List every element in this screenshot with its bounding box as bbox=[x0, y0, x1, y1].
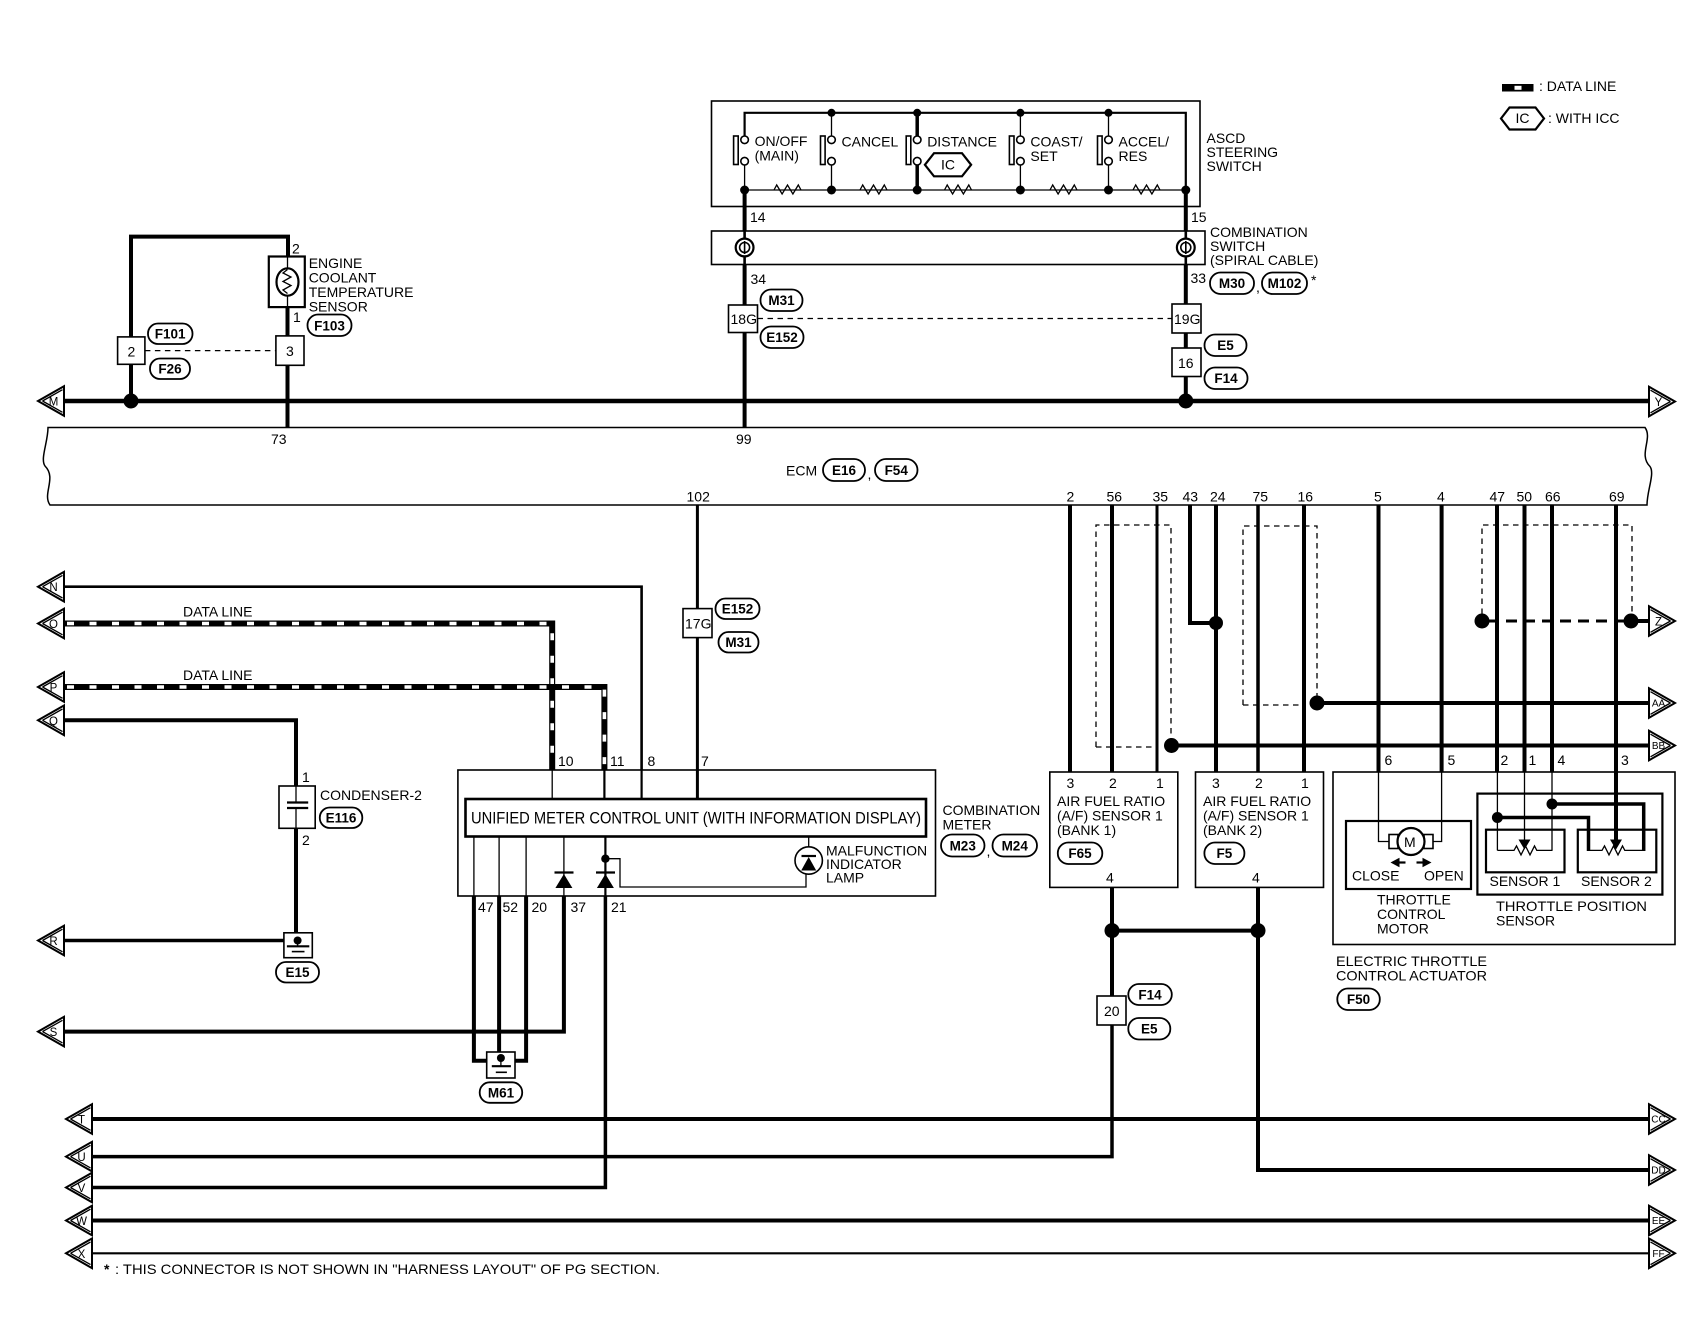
combination meter box bbox=[458, 770, 936, 896]
wire pin52 inside bbox=[498, 837, 500, 897]
connector box 3 bbox=[276, 336, 304, 365]
pin 14 wire bbox=[743, 190, 747, 231]
svg-text:102: 102 bbox=[687, 489, 711, 505]
svg-text:8: 8 bbox=[648, 753, 656, 769]
wire meter pin 20 to ground bbox=[515, 896, 526, 1061]
connector E152 label bbox=[761, 327, 804, 349]
svg-text:1: 1 bbox=[302, 769, 310, 785]
svg-text:E5: E5 bbox=[1217, 338, 1234, 353]
switch DISTANCE SW3 (thick, with IC) bbox=[906, 113, 997, 190]
wire bus M to Y bbox=[64, 399, 1649, 404]
svg-text:11: 11 bbox=[610, 753, 625, 769]
svg-text:F54: F54 bbox=[885, 463, 909, 478]
page arrow CC bbox=[1649, 1104, 1675, 1134]
COMBINATION SWITCH (SPIRAL CABLE) bbox=[712, 224, 1319, 305]
svg-text:,: , bbox=[987, 843, 991, 859]
electric throttle control actuator box bbox=[1333, 772, 1675, 945]
svg-text:DATA LINE: DATA LINE bbox=[183, 604, 253, 620]
svg-text:CONDENSER-2: CONDENSER-2 bbox=[320, 787, 422, 803]
wire pin10 into unified box bbox=[551, 770, 553, 799]
page arrow M bbox=[38, 386, 64, 416]
page arrow AA bbox=[1649, 688, 1675, 718]
svg-text:,: , bbox=[1256, 279, 1260, 295]
svg-text:2: 2 bbox=[1109, 775, 1117, 791]
svg-text:33: 33 bbox=[1191, 270, 1207, 286]
M61 ground + S bbox=[38, 896, 605, 1202]
svg-text:2: 2 bbox=[1255, 775, 1263, 791]
page arrow X bbox=[66, 1239, 92, 1269]
svg-text:W: W bbox=[76, 1216, 87, 1228]
junction dot pin2 bbox=[1492, 812, 1503, 823]
wire ECM pin 75 to AF2 pin 2 bbox=[1256, 505, 1260, 772]
wire ETCA pin6 to motor bbox=[1379, 772, 1390, 842]
thick dashed Z link bbox=[1488, 620, 1625, 623]
wire ECM pin 66 to TPS pin 4 bbox=[1550, 505, 1554, 772]
page arrow FF bbox=[1649, 1239, 1675, 1269]
page arrow V bbox=[66, 1173, 92, 1203]
svg-text:99: 99 bbox=[736, 431, 752, 447]
wire box2 to bus junction bbox=[129, 364, 133, 401]
junction dot Z right bbox=[1624, 614, 1639, 629]
throttle control motor M bbox=[1389, 828, 1433, 867]
wire ECM pin 102 down bbox=[696, 505, 699, 609]
svg-text:43: 43 bbox=[1183, 489, 1199, 505]
junction dot on pin21 wire bbox=[601, 855, 609, 863]
page arrow Z bbox=[1649, 606, 1675, 636]
svg-text:4: 4 bbox=[1106, 870, 1114, 886]
spiral cable box bbox=[712, 231, 1206, 265]
svg-text:F14: F14 bbox=[1214, 371, 1238, 386]
pin 15 wire bbox=[1184, 190, 1188, 231]
svg-text:O: O bbox=[49, 619, 58, 631]
wire box3 to ECM pin 73 bbox=[286, 365, 290, 427]
wire loop from bus to sensor pin 2 bbox=[131, 237, 288, 365]
svg-text:1: 1 bbox=[293, 309, 301, 325]
svg-text:19G: 19G bbox=[1174, 311, 1200, 327]
wire pin2 to sensor2 left bbox=[1497, 818, 1588, 852]
left spiral contact symbol bbox=[736, 239, 754, 257]
wire meter pin 37 to S bbox=[64, 896, 564, 1032]
svg-text:E152: E152 bbox=[766, 330, 798, 345]
page arrow P bbox=[38, 672, 64, 702]
wire ETCA pin5 to motor bbox=[1433, 772, 1442, 842]
connector M30 bbox=[1210, 273, 1254, 295]
svg-text:4: 4 bbox=[1437, 489, 1445, 505]
page arrow Y bbox=[1649, 387, 1675, 417]
svg-text:,: , bbox=[868, 466, 872, 482]
junction dots bottom rail bbox=[740, 186, 749, 195]
IC hexagon bbox=[925, 153, 971, 176]
svg-text:Q: Q bbox=[49, 716, 58, 728]
svg-text:F103: F103 bbox=[314, 319, 345, 334]
wire TPS pin3 to wiper2 bbox=[1614, 772, 1618, 840]
svg-text:: THIS CONNECTOR IS NOT SHOWN: : THIS CONNECTOR IS NOT SHOWN IN "HARNES… bbox=[115, 1261, 660, 1277]
svg-text:S: S bbox=[50, 1027, 58, 1039]
svg-text:Y: Y bbox=[1655, 397, 1663, 409]
svg-text:1: 1 bbox=[1529, 752, 1537, 768]
wire ECM pin 4 to ETCA pin 5 bbox=[1440, 505, 1444, 772]
svg-text:6: 6 bbox=[1385, 752, 1393, 768]
svg-text:5: 5 bbox=[1374, 489, 1382, 505]
sensor1 wiper arrow bbox=[1519, 840, 1531, 850]
svg-text:4: 4 bbox=[1252, 870, 1260, 886]
connector E5 label bbox=[1205, 335, 1247, 357]
bottom lines bbox=[66, 1104, 1675, 1277]
svg-text:: WITH ICC: : WITH ICC bbox=[1548, 110, 1620, 126]
top feed wire bbox=[745, 113, 1186, 190]
svg-text:20: 20 bbox=[1104, 1003, 1120, 1019]
junction dot AF2 pin4 bbox=[1251, 923, 1266, 938]
unified meter control unit box bbox=[466, 799, 927, 837]
wire below 18G to ECM pin 99 bbox=[743, 333, 747, 428]
dashed connector link 2-3 bbox=[145, 350, 276, 352]
svg-text:2: 2 bbox=[128, 344, 136, 360]
bottom resistor rail wire bbox=[745, 189, 1186, 191]
wire ECM pin 2 to AF1 pin 3 bbox=[1068, 505, 1072, 772]
pin 33 wire bbox=[1184, 265, 1188, 305]
combination meter bbox=[458, 753, 1040, 915]
svg-text:M31: M31 bbox=[725, 635, 752, 650]
svg-text:F101: F101 bbox=[155, 327, 186, 342]
bus junction dot bbox=[124, 394, 139, 409]
svg-text:15: 15 bbox=[1191, 209, 1207, 225]
svg-text:(SPIRAL CABLE): (SPIRAL CABLE) bbox=[1210, 252, 1318, 268]
malfunction indicator lamp bbox=[795, 837, 927, 886]
svg-text:17G: 17G bbox=[685, 616, 711, 632]
svg-text:3: 3 bbox=[1067, 775, 1075, 791]
svg-text:14: 14 bbox=[750, 209, 766, 225]
wire meter pin 21 to V bbox=[92, 896, 605, 1188]
svg-text:52: 52 bbox=[503, 899, 519, 915]
wire ECM pin 50 to TPS pin 1 bbox=[1523, 505, 1527, 772]
wire Z bbox=[1631, 619, 1649, 623]
connector 20 bbox=[1097, 996, 1126, 1025]
wire AA bbox=[1317, 701, 1649, 705]
svg-text:DATA LINE: DATA LINE bbox=[183, 667, 253, 683]
svg-text:75: 75 bbox=[1253, 489, 1269, 505]
svg-text:SENSOR 1: SENSOR 1 bbox=[1490, 873, 1561, 889]
svg-text:69: 69 bbox=[1609, 489, 1625, 505]
svg-text:10: 10 bbox=[558, 753, 574, 769]
wire meter pin 52 to ground bbox=[497, 896, 501, 1058]
page arrow S bbox=[38, 1017, 64, 1047]
svg-text:56: 56 bbox=[1107, 489, 1123, 505]
ECM band bbox=[43, 428, 1651, 506]
junction dot AF1 pin4 bbox=[1105, 923, 1120, 938]
dashed option boxes + Z AA BB bbox=[1096, 525, 1675, 760]
svg-text:(BANK 2): (BANK 2) bbox=[1203, 822, 1262, 838]
connector F54 label bbox=[875, 459, 918, 481]
wire X to FF bbox=[92, 1252, 1649, 1254]
svg-text:V: V bbox=[78, 1183, 86, 1195]
sensor2 resistor bbox=[1589, 846, 1645, 855]
svg-text:18G: 18G bbox=[731, 311, 757, 327]
svg-text:SENSOR: SENSOR bbox=[309, 299, 368, 315]
wire AF1 pin 4 down bbox=[1110, 887, 1114, 996]
svg-text:50: 50 bbox=[1517, 489, 1533, 505]
switch ON/OFF (MAIN) SW1 bbox=[734, 133, 808, 190]
svg-text:3: 3 bbox=[286, 343, 294, 359]
wire ECM pin 24 to AF2 pin 3 bbox=[1214, 505, 1218, 772]
svg-text:T: T bbox=[78, 1115, 85, 1127]
svg-text:FF: FF bbox=[1652, 1249, 1664, 1260]
air fuel ratio sensor 1 bank 1 box bbox=[1050, 772, 1178, 887]
resistor R3 bbox=[945, 185, 972, 194]
svg-text:E16: E16 bbox=[832, 463, 857, 478]
data line legend symbol bbox=[1502, 78, 1616, 94]
wire 20 box to U bbox=[92, 1025, 1112, 1157]
svg-text:IC: IC bbox=[941, 157, 955, 173]
ASCD steering switch box bbox=[712, 101, 1201, 207]
svg-text:1: 1 bbox=[1301, 775, 1309, 791]
throttle position sensor box bbox=[1477, 794, 1662, 895]
resistor R4 bbox=[1050, 185, 1077, 194]
wire pin8 into unified box bbox=[640, 770, 642, 799]
connector M24 label bbox=[993, 835, 1038, 857]
svg-text:E5: E5 bbox=[1141, 1022, 1158, 1037]
connector F14 label bbox=[1205, 368, 1248, 390]
ECM outline with wavy ends bbox=[43, 428, 1651, 506]
svg-text:1: 1 bbox=[1156, 775, 1164, 791]
svg-text:M102: M102 bbox=[1268, 276, 1302, 291]
svg-text:66: 66 bbox=[1545, 489, 1561, 505]
bus junction dot bbox=[1178, 394, 1193, 409]
svg-text:16: 16 bbox=[1298, 489, 1314, 505]
N O P Q lines bbox=[38, 572, 642, 786]
svg-text:2: 2 bbox=[302, 832, 310, 848]
svg-text:X: X bbox=[78, 1249, 86, 1261]
air fuel ratio sensor 1 bank 2 box bbox=[1196, 772, 1324, 887]
wire BB bbox=[1172, 744, 1650, 748]
dashed connector link 18G-19G bbox=[758, 318, 1173, 320]
svg-text:3: 3 bbox=[1621, 752, 1629, 768]
wire pin11 into unified box bbox=[603, 770, 605, 799]
wire 19G to 16 bbox=[1184, 333, 1188, 348]
wire O data line to meter pin 10 bbox=[64, 624, 552, 771]
page arrow BB bbox=[1649, 731, 1675, 761]
throttle control motor box bbox=[1346, 821, 1471, 889]
wire dot to lamp bbox=[605, 859, 806, 887]
wire R to ground box bbox=[64, 939, 284, 943]
svg-text:24: 24 bbox=[1210, 489, 1226, 505]
svg-text:F14: F14 bbox=[1138, 988, 1162, 1003]
page arrow W bbox=[66, 1206, 92, 1236]
ground M61 bbox=[487, 1052, 515, 1078]
svg-text:4: 4 bbox=[1558, 752, 1566, 768]
sensor 2 box bbox=[1578, 830, 1657, 873]
wire meter pin 47 to ground bbox=[474, 896, 487, 1061]
svg-text:AA: AA bbox=[1652, 699, 1666, 710]
ground E15 bbox=[284, 933, 312, 958]
page arrow T bbox=[66, 1104, 92, 1134]
connector 17G bbox=[683, 609, 712, 638]
wire TPS pin2 bbox=[1496, 772, 1498, 850]
resistor R5 bbox=[1133, 185, 1160, 194]
connector M31 label bbox=[719, 632, 759, 653]
page arrow U bbox=[66, 1142, 92, 1172]
wire 17G to meter pin 7 bbox=[696, 638, 699, 770]
connector F101 label bbox=[148, 324, 193, 345]
svg-text:2: 2 bbox=[1067, 489, 1075, 505]
LEGEND bbox=[1501, 78, 1620, 130]
connector F26 label bbox=[150, 359, 190, 380]
svg-text:Z: Z bbox=[1655, 617, 1662, 629]
svg-text:DD: DD bbox=[1651, 1166, 1665, 1177]
wire condenser to ground bbox=[294, 828, 298, 934]
dashed option box 1 (pins 56/35) bbox=[1096, 525, 1171, 747]
svg-text:73: 73 bbox=[271, 431, 287, 447]
switch CANCEL SW2 bbox=[821, 113, 899, 190]
svg-text:M: M bbox=[1404, 834, 1416, 850]
capacitor symbol bbox=[295, 786, 297, 802]
connector 18G bbox=[729, 305, 758, 333]
A/F sensors bbox=[66, 505, 1675, 1185]
engine coolant temperature sensor box bbox=[269, 257, 305, 308]
junction dots top wire bbox=[828, 109, 836, 117]
pin 34 wire bbox=[743, 265, 747, 306]
connector F14 label bbox=[1128, 984, 1172, 1005]
svg-text:21: 21 bbox=[611, 899, 627, 915]
wire pin7 into unified box bbox=[696, 770, 699, 799]
connector box 2 bbox=[118, 337, 145, 364]
wire through right spiral contact bbox=[1185, 231, 1188, 265]
wire Q to condenser bbox=[64, 720, 296, 786]
svg-text:M31: M31 bbox=[768, 293, 795, 308]
connector M102 bbox=[1262, 273, 1307, 295]
connector F103 label bbox=[308, 315, 352, 337]
svg-text:E116: E116 bbox=[326, 811, 357, 826]
connector 16 bbox=[1172, 348, 1201, 377]
svg-text:U: U bbox=[77, 1152, 85, 1164]
svg-text:F26: F26 bbox=[158, 362, 182, 377]
svg-text:CC: CC bbox=[1651, 1115, 1665, 1126]
connector E152 label bbox=[716, 599, 760, 620]
svg-text:37: 37 bbox=[571, 899, 587, 915]
svg-text:5: 5 bbox=[1448, 752, 1456, 768]
ASCD STEERING SWITCH bbox=[712, 101, 1279, 231]
svg-text:EE: EE bbox=[1652, 1216, 1666, 1227]
svg-text:(BANK 1): (BANK 1) bbox=[1057, 822, 1116, 838]
wire ECM pin 35 to AF1 pin 1 bbox=[1156, 505, 1159, 772]
svg-text:F65: F65 bbox=[1068, 846, 1092, 861]
MAIN BUS M-Y bbox=[38, 386, 1675, 416]
wire through left spiral contact bbox=[743, 231, 746, 265]
resistor R1 bbox=[774, 185, 801, 194]
junction dot 43/24 bbox=[1209, 616, 1223, 630]
sensor 1 box bbox=[1486, 830, 1565, 873]
dashed option box 2 (pins 75/16) bbox=[1243, 526, 1317, 705]
wire AF2 pin 4 down to DD bbox=[1258, 887, 1649, 1170]
svg-text:LAMP: LAMP bbox=[826, 870, 864, 886]
connector M61 label bbox=[480, 1082, 523, 1103]
sensor2 wiper arrow bbox=[1610, 840, 1622, 850]
connector E15 label bbox=[276, 962, 319, 983]
svg-text:M61: M61 bbox=[488, 1086, 515, 1101]
electric throttle control actuator bbox=[1333, 505, 1675, 1010]
svg-text:BB: BB bbox=[1652, 741, 1666, 752]
connector E116 label bbox=[320, 808, 363, 829]
svg-text:ECM: ECM bbox=[786, 463, 817, 479]
svg-text:M: M bbox=[49, 397, 59, 409]
svg-text:: DATA LINE: : DATA LINE bbox=[1539, 78, 1616, 94]
page arrow EE bbox=[1649, 1206, 1675, 1236]
connector E16 label bbox=[823, 459, 865, 481]
svg-text:P: P bbox=[50, 683, 58, 695]
svg-text:SENSOR 2: SENSOR 2 bbox=[1581, 873, 1652, 889]
svg-text:DISTANCE: DISTANCE bbox=[927, 134, 997, 150]
svg-text:47: 47 bbox=[478, 899, 494, 915]
junction dot AA start bbox=[1310, 696, 1325, 711]
svg-text:7: 7 bbox=[701, 753, 709, 769]
wire ECM pin 43 elbow bbox=[1190, 505, 1216, 623]
svg-text:*: * bbox=[104, 1261, 110, 1277]
svg-text:47: 47 bbox=[1490, 489, 1506, 505]
svg-text:34: 34 bbox=[751, 271, 767, 287]
connector E5 label bbox=[1128, 1018, 1170, 1040]
switch COAST/SET SW4 bbox=[1009, 113, 1082, 190]
svg-text:E15: E15 bbox=[285, 965, 310, 980]
sensor1 resistor bbox=[1497, 846, 1552, 855]
wire ECM pin 69 to TPS pin 3 bbox=[1614, 505, 1618, 772]
wire pin21 inside with diode D2 bbox=[604, 837, 606, 897]
IC hexagon legend symbol bbox=[1501, 108, 1620, 130]
svg-text:20: 20 bbox=[532, 899, 548, 915]
link wire between pin4s bbox=[1112, 929, 1258, 933]
wire TPS pin4 bbox=[1551, 772, 1553, 850]
svg-text:2: 2 bbox=[1501, 752, 1509, 768]
page arrow N bbox=[38, 572, 64, 602]
wire pin20 inside bbox=[525, 837, 527, 897]
wire ECM pin 47 to TPS pin 2 bbox=[1495, 505, 1499, 772]
wire pin4 to sensor2 right bbox=[1552, 804, 1644, 851]
svg-text:MOTOR: MOTOR bbox=[1377, 921, 1429, 937]
junction dot BB start bbox=[1164, 738, 1179, 753]
dashed option box 3 (pins 47/50/66/69) bbox=[1482, 525, 1632, 614]
17G connector bbox=[683, 505, 760, 770]
svg-text:35: 35 bbox=[1153, 489, 1169, 505]
condenser + R ground bbox=[38, 769, 422, 983]
condenser-2 box bbox=[279, 786, 315, 828]
svg-text:3: 3 bbox=[1212, 775, 1220, 791]
wire pin37 inside with diode D1 bbox=[563, 837, 565, 897]
wire T to CC bbox=[92, 1117, 1649, 1121]
svg-text:CLOSE: CLOSE bbox=[1352, 868, 1399, 884]
svg-text:2: 2 bbox=[292, 241, 300, 257]
wire P data line to meter pin 11 bbox=[64, 687, 604, 770]
svg-text:METER: METER bbox=[943, 817, 992, 833]
svg-text:(MAIN): (MAIN) bbox=[755, 148, 799, 164]
page arrow R bbox=[38, 926, 64, 956]
wire TPS pin1 to wiper1 bbox=[1524, 772, 1526, 840]
svg-text:E152: E152 bbox=[722, 602, 754, 617]
svg-text:N: N bbox=[49, 582, 57, 594]
wire ECM pin 56 to AF1 pin 2 bbox=[1110, 505, 1114, 772]
ENGINE COOLANT TEMP SENSOR bbox=[118, 237, 414, 428]
wire 16 to bus junction bbox=[1184, 377, 1188, 402]
resistor R2 bbox=[860, 185, 887, 194]
svg-text:OPEN: OPEN bbox=[1424, 868, 1464, 884]
svg-text:CONTROL ACTUATOR: CONTROL ACTUATOR bbox=[1336, 968, 1487, 984]
connector F5 label bbox=[1204, 843, 1244, 865]
svg-text:R: R bbox=[49, 936, 57, 948]
wire W to EE bbox=[92, 1219, 1649, 1223]
svg-text:RES: RES bbox=[1119, 148, 1148, 164]
wire ECM pin 16 to AF2 pin 1 bbox=[1302, 505, 1306, 772]
connector F50 label bbox=[1337, 989, 1380, 1011]
switch ACCEL/RES SW5 bbox=[1098, 113, 1170, 190]
wire N to meter pin 8 bbox=[64, 587, 642, 770]
connector F65 label bbox=[1058, 843, 1103, 865]
